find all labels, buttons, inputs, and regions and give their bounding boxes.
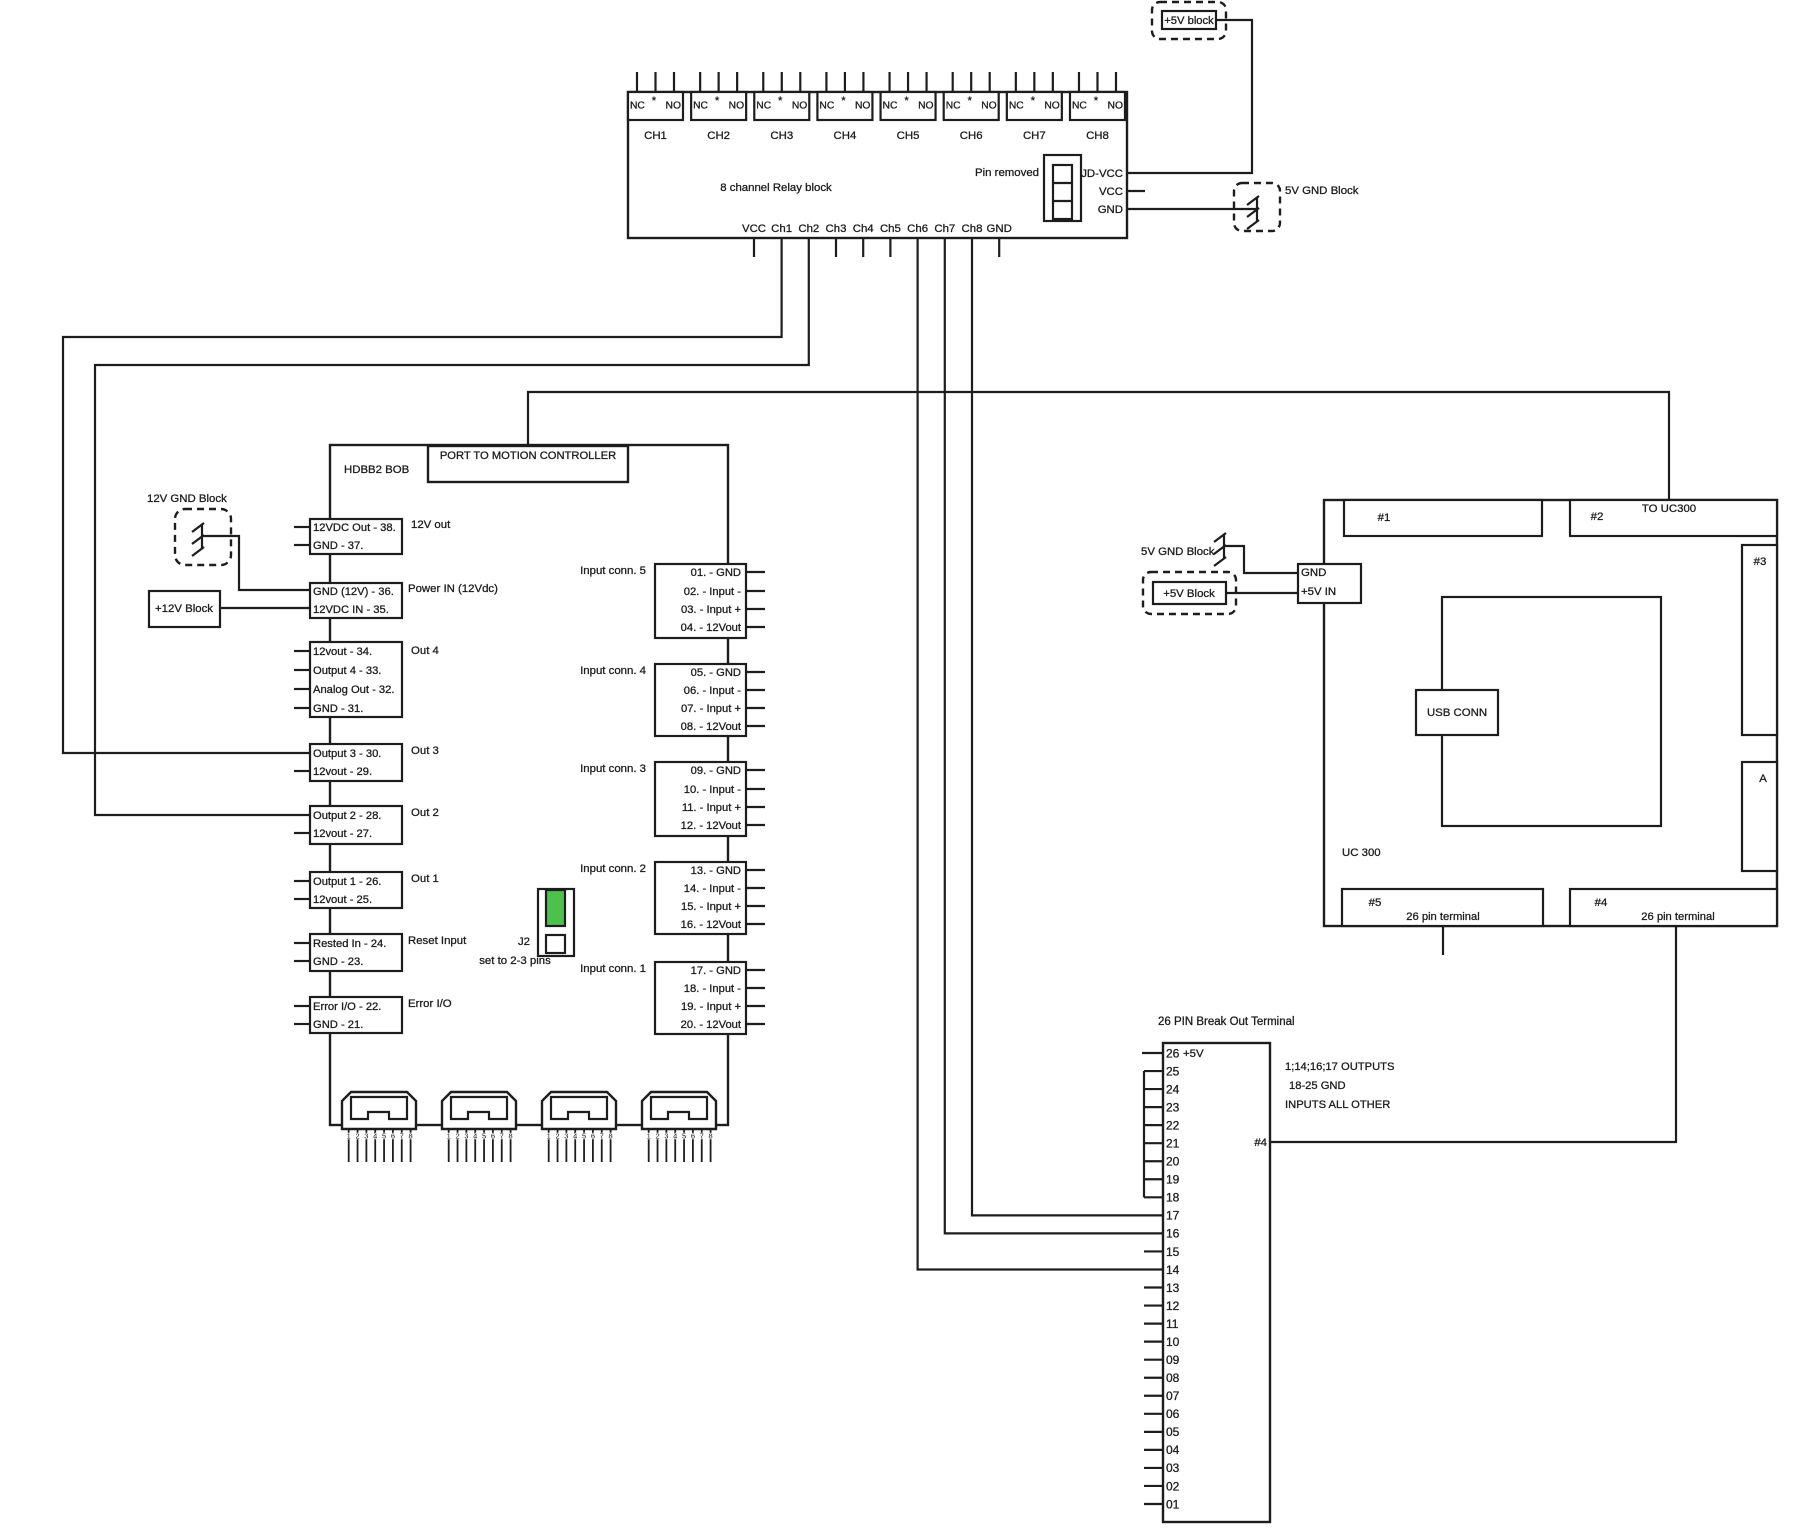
svg-text:15: 15: [1166, 1245, 1180, 1259]
svg-text:Ch8: Ch8: [962, 223, 983, 235]
svg-text:Ch2: Ch2: [798, 223, 819, 235]
svg-text:CH2: CH2: [707, 130, 730, 142]
svg-text:Input conn. 3: Input conn. 3: [580, 763, 646, 775]
svg-text:PORT TO MOTION CONTROLLER: PORT TO MOTION CONTROLLER: [440, 450, 616, 462]
svg-text:NC: NC: [1072, 101, 1087, 112]
svg-text:CH7: CH7: [1023, 130, 1046, 142]
svg-text:1;14;16;17 OUTPUTS: 1;14;16;17 OUTPUTS: [1285, 1061, 1394, 1073]
svg-text:17. - GND: 17. - GND: [691, 965, 741, 977]
svg-text:02: 02: [1166, 1479, 1180, 1493]
svg-text:CH6: CH6: [960, 130, 983, 142]
svg-text:26 PIN Break Out Terminal: 26 PIN Break Out Terminal: [1158, 1016, 1295, 1028]
svg-text:05. - GND: 05. - GND: [691, 667, 741, 679]
svg-text:12vout - 34.: 12vout - 34.: [313, 646, 372, 658]
svg-text:Out 2: Out 2: [411, 807, 439, 819]
svg-text:CH8: CH8: [1086, 130, 1109, 142]
svg-text:16. - 12Vout: 16. - 12Vout: [681, 919, 742, 931]
svg-text:Ch4: Ch4: [853, 223, 874, 235]
svg-text:2: 2: [555, 1132, 559, 1141]
svg-text:Input conn. 4: Input conn. 4: [580, 665, 646, 677]
svg-text:TO UC300: TO UC300: [1642, 503, 1696, 515]
svg-text:*: *: [1094, 95, 1099, 107]
svg-text:03. - Input +: 03. - Input +: [681, 604, 741, 616]
svg-text:17: 17: [1166, 1209, 1180, 1223]
svg-text:*: *: [841, 95, 846, 107]
svg-text:05: 05: [1166, 1425, 1180, 1439]
svg-text:12vout - 29.: 12vout - 29.: [313, 766, 372, 778]
svg-text:08. - 12Vout: 08. - 12Vout: [681, 721, 742, 733]
svg-text:6: 6: [491, 1132, 495, 1141]
svg-text:Analog Out - 32.: Analog Out - 32.: [313, 684, 394, 696]
svg-text:3: 3: [664, 1132, 668, 1141]
svg-text:6: 6: [391, 1132, 395, 1141]
svg-text:VCC: VCC: [742, 223, 766, 235]
svg-text:12vout - 25.: 12vout - 25.: [313, 894, 372, 906]
svg-text:7: 7: [400, 1132, 404, 1141]
svg-text:*: *: [904, 95, 909, 107]
svg-text:8 channel Relay block: 8 channel Relay block: [720, 182, 832, 194]
svg-text:14. - Input -: 14. - Input -: [684, 883, 741, 895]
svg-text:04. - 12Vout: 04. - 12Vout: [681, 622, 742, 634]
svg-text:1: 1: [647, 1132, 651, 1141]
svg-text:Output 2 - 28.: Output 2 - 28.: [313, 810, 381, 822]
svg-text:#5: #5: [1369, 897, 1382, 909]
svg-text:18-25 GND: 18-25 GND: [1289, 1080, 1346, 1092]
svg-text:set to 2-3 pins: set to 2-3 pins: [479, 955, 551, 967]
svg-text:4: 4: [473, 1132, 477, 1141]
svg-text:4: 4: [573, 1132, 577, 1141]
svg-text:NO: NO: [981, 101, 996, 112]
svg-text:19. - Input +: 19. - Input +: [681, 1001, 741, 1013]
svg-text:8: 8: [708, 1132, 712, 1141]
svg-text:Error I/O - 22.: Error I/O - 22.: [313, 1001, 381, 1013]
svg-text:2: 2: [355, 1132, 359, 1141]
svg-text:CH1: CH1: [644, 130, 667, 142]
svg-text:18. - Input -: 18. - Input -: [684, 983, 741, 995]
svg-text:J2: J2: [518, 936, 530, 948]
svg-text:GND - 37.: GND - 37.: [313, 540, 363, 552]
svg-text:1: 1: [447, 1132, 451, 1141]
svg-text:25: 25: [1166, 1064, 1180, 1078]
svg-text:11. - Input +: 11. - Input +: [682, 802, 741, 814]
svg-text:NO: NO: [1044, 101, 1059, 112]
svg-text:A: A: [1759, 773, 1767, 785]
svg-text:NO: NO: [666, 101, 681, 112]
svg-text:1: 1: [347, 1132, 351, 1141]
svg-text:3: 3: [464, 1132, 468, 1141]
svg-text:09. - GND: 09. - GND: [691, 765, 741, 777]
svg-text:USB CONN: USB CONN: [1427, 707, 1487, 719]
svg-text:5: 5: [482, 1132, 486, 1141]
svg-text:23: 23: [1166, 1100, 1180, 1114]
svg-text:HDBB2 BOB: HDBB2 BOB: [344, 464, 409, 476]
svg-text:12: 12: [1166, 1299, 1180, 1313]
svg-text:NC: NC: [756, 101, 771, 112]
svg-text:06. - Input -: 06. - Input -: [684, 685, 741, 697]
svg-text:12V GND Block: 12V GND Block: [147, 493, 227, 505]
svg-text:24: 24: [1166, 1082, 1180, 1096]
svg-text:8: 8: [608, 1132, 612, 1141]
svg-text:GND: GND: [1301, 567, 1326, 579]
svg-text:7: 7: [700, 1132, 704, 1141]
svg-text:NC: NC: [946, 101, 961, 112]
svg-text:10: 10: [1166, 1335, 1180, 1349]
svg-text:Ch5: Ch5: [880, 223, 901, 235]
svg-text:*: *: [715, 95, 720, 107]
svg-text:NO: NO: [1108, 101, 1123, 112]
svg-text:22: 22: [1166, 1119, 1180, 1133]
svg-text:GND: GND: [987, 223, 1012, 235]
svg-text:Ch6: Ch6: [907, 223, 928, 235]
svg-text:Ch1: Ch1: [771, 223, 792, 235]
svg-text:21: 21: [1166, 1137, 1180, 1151]
svg-text:8: 8: [408, 1132, 412, 1141]
svg-text:*: *: [652, 95, 657, 107]
svg-text:6: 6: [691, 1132, 695, 1141]
svg-text:11: 11: [1166, 1317, 1179, 1331]
svg-text:Output 1 - 26.: Output 1 - 26.: [313, 876, 381, 888]
svg-text:19: 19: [1166, 1173, 1180, 1187]
svg-text:Ch3: Ch3: [826, 223, 847, 235]
svg-text:7: 7: [500, 1132, 504, 1141]
svg-text:Rested In - 24.: Rested In - 24.: [313, 938, 386, 950]
svg-text:13: 13: [1166, 1281, 1180, 1295]
svg-text:12. - 12Vout: 12. - 12Vout: [681, 820, 742, 832]
svg-text:INPUTS ALL OTHER: INPUTS ALL OTHER: [1285, 1099, 1390, 1111]
svg-text:CH3: CH3: [770, 130, 793, 142]
svg-text:16: 16: [1166, 1227, 1180, 1241]
svg-text:2: 2: [655, 1132, 659, 1141]
svg-text:NO: NO: [918, 101, 933, 112]
svg-text:+12V Block: +12V Block: [155, 603, 213, 615]
svg-text:12VDC Out - 38.: 12VDC Out - 38.: [313, 522, 396, 534]
svg-text:8: 8: [508, 1132, 512, 1141]
svg-text:26 pin terminal: 26 pin terminal: [1406, 911, 1479, 923]
svg-text:5: 5: [382, 1132, 386, 1141]
svg-text:#2: #2: [1591, 511, 1604, 523]
svg-text:+5V block: +5V block: [1164, 15, 1214, 27]
svg-text:NC: NC: [630, 101, 645, 112]
svg-text:2: 2: [455, 1132, 459, 1141]
svg-text:02. - Input -: 02. - Input -: [684, 586, 741, 598]
svg-text:VCC: VCC: [1099, 186, 1123, 198]
svg-text:GND - 31.: GND - 31.: [313, 703, 363, 715]
svg-text:12VDC IN - 35.: 12VDC IN - 35.: [313, 604, 389, 616]
svg-text:4: 4: [673, 1132, 677, 1141]
svg-text:08: 08: [1166, 1371, 1180, 1385]
svg-text:15. - Input +: 15. - Input +: [681, 901, 741, 913]
svg-text:GND: GND: [1098, 204, 1123, 216]
svg-text:01: 01: [1166, 1497, 1180, 1511]
svg-text:Reset Input: Reset Input: [408, 935, 467, 947]
svg-text:3: 3: [564, 1132, 568, 1141]
svg-text:04: 04: [1166, 1443, 1180, 1457]
svg-text:Power IN (12Vdc): Power IN (12Vdc): [408, 583, 498, 595]
svg-text:Input conn. 5: Input conn. 5: [580, 565, 646, 577]
svg-text:#4: #4: [1254, 1137, 1267, 1149]
svg-text:26: 26: [1166, 1046, 1180, 1060]
svg-text:07. - Input +: 07. - Input +: [681, 703, 741, 715]
svg-text:Output 3 - 30.: Output 3 - 30.: [313, 748, 381, 760]
svg-text:+5V IN: +5V IN: [1301, 586, 1336, 598]
svg-text:UC 300: UC 300: [1342, 847, 1381, 859]
svg-text:5: 5: [682, 1132, 686, 1141]
svg-text:NC: NC: [819, 101, 834, 112]
svg-text:+5V: +5V: [1183, 1048, 1204, 1060]
svg-text:Pin removed: Pin removed: [975, 167, 1039, 179]
svg-text:NC: NC: [693, 101, 708, 112]
svg-text:GND (12V) - 36.: GND (12V) - 36.: [313, 586, 394, 598]
svg-text:JD-VCC: JD-VCC: [1081, 168, 1123, 180]
svg-text:20. - 12Vout: 20. - 12Vout: [681, 1019, 742, 1031]
svg-text:26 pin terminal: 26 pin terminal: [1641, 911, 1714, 923]
svg-text:14: 14: [1166, 1263, 1180, 1277]
svg-text:Out 4: Out 4: [411, 645, 439, 657]
svg-text:Out 3: Out 3: [411, 745, 439, 757]
svg-text:+5V Block: +5V Block: [1163, 588, 1215, 600]
svg-text:12vout - 27.: 12vout - 27.: [313, 828, 372, 840]
svg-text:Output 4 - 33.: Output 4 - 33.: [313, 665, 381, 677]
svg-text:5V GND Block: 5V GND Block: [1285, 185, 1359, 197]
svg-text:Error I/O: Error I/O: [408, 998, 452, 1010]
svg-text:#4: #4: [1595, 897, 1608, 909]
svg-text:Input conn. 2: Input conn. 2: [580, 863, 646, 875]
svg-text:*: *: [1031, 95, 1036, 107]
svg-text:01. - GND: 01. - GND: [691, 567, 741, 579]
svg-text:07: 07: [1166, 1389, 1180, 1403]
svg-text:06: 06: [1166, 1407, 1180, 1421]
svg-text:NO: NO: [855, 101, 870, 112]
svg-text:#1: #1: [1378, 512, 1391, 524]
svg-text:03: 03: [1166, 1461, 1180, 1475]
svg-text:5V GND Block: 5V GND Block: [1141, 546, 1215, 558]
svg-text:1: 1: [547, 1132, 551, 1141]
svg-text:Out 1: Out 1: [411, 873, 439, 885]
svg-text:NC: NC: [1009, 101, 1024, 112]
svg-text:10. - Input -: 10. - Input -: [684, 784, 741, 796]
svg-text:3: 3: [364, 1132, 368, 1141]
svg-text:GND - 21.: GND - 21.: [313, 1019, 363, 1031]
svg-text:CH5: CH5: [897, 130, 920, 142]
svg-text:18: 18: [1166, 1191, 1180, 1205]
svg-text:NO: NO: [792, 101, 807, 112]
svg-text:NC: NC: [883, 101, 898, 112]
svg-text:09: 09: [1166, 1353, 1180, 1367]
svg-text:CH4: CH4: [834, 130, 857, 142]
svg-text:#3: #3: [1754, 556, 1767, 568]
svg-text:7: 7: [600, 1132, 604, 1141]
svg-text:6: 6: [591, 1132, 595, 1141]
svg-text:*: *: [778, 95, 783, 107]
svg-text:*: *: [967, 95, 972, 107]
svg-text:5: 5: [582, 1132, 586, 1141]
svg-text:NO: NO: [729, 101, 744, 112]
svg-text:20: 20: [1166, 1155, 1180, 1169]
svg-text:GND - 23.: GND - 23.: [313, 956, 363, 968]
svg-text:13. - GND: 13. - GND: [691, 865, 741, 877]
svg-text:Ch7: Ch7: [934, 223, 955, 235]
svg-text:12V out: 12V out: [411, 519, 451, 531]
svg-text:Input conn. 1: Input conn. 1: [580, 963, 646, 975]
svg-text:4: 4: [373, 1132, 377, 1141]
